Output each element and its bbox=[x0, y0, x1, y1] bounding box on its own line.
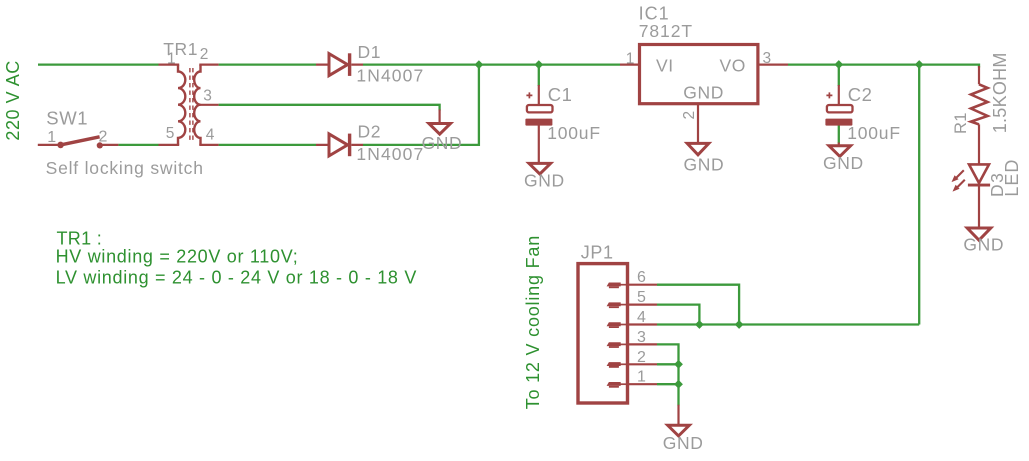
svg-text:GND: GND bbox=[684, 155, 725, 175]
svg-text:LV winding = 24 - 0 - 24 V or: LV winding = 24 - 0 - 24 V or 18 - 0 - 1… bbox=[56, 268, 417, 288]
svg-text:2: 2 bbox=[200, 46, 209, 63]
svg-text:VI: VI bbox=[656, 56, 674, 76]
svg-text:Self locking switch: Self locking switch bbox=[46, 158, 204, 178]
svg-text:1N4007: 1N4007 bbox=[356, 144, 424, 164]
svg-text:3: 3 bbox=[203, 88, 212, 105]
svg-text:GND: GND bbox=[683, 82, 724, 102]
svg-text:SW1: SW1 bbox=[46, 108, 88, 129]
svg-text:2: 2 bbox=[681, 110, 698, 119]
svg-text:7812T: 7812T bbox=[639, 21, 693, 41]
svg-text:D1: D1 bbox=[358, 42, 382, 62]
svg-text:2: 2 bbox=[99, 129, 109, 146]
svg-text:1: 1 bbox=[47, 129, 57, 146]
svg-text:C2: C2 bbox=[848, 84, 873, 105]
svg-text:TR1 :: TR1 : bbox=[57, 228, 103, 248]
svg-text:HV winding = 220V or 110V;: HV winding = 220V or 110V; bbox=[56, 246, 299, 266]
svg-text:1: 1 bbox=[637, 369, 647, 386]
svg-text:4: 4 bbox=[637, 309, 647, 326]
svg-text:5: 5 bbox=[637, 289, 647, 306]
svg-text:VO: VO bbox=[720, 56, 747, 76]
svg-text:R1: R1 bbox=[952, 112, 970, 134]
svg-text:GND: GND bbox=[663, 433, 704, 453]
svg-text:LED: LED bbox=[1002, 159, 1022, 197]
svg-text:GND: GND bbox=[823, 153, 864, 173]
svg-text:6: 6 bbox=[637, 269, 647, 286]
svg-text:1: 1 bbox=[626, 51, 635, 68]
svg-text:JP1: JP1 bbox=[581, 242, 614, 262]
svg-text:GND: GND bbox=[524, 171, 565, 191]
svg-text:To 12 V cooling Fan: To 12 V cooling Fan bbox=[523, 235, 543, 409]
svg-text:D2: D2 bbox=[358, 122, 382, 142]
svg-text:220 V AC: 220 V AC bbox=[3, 60, 23, 140]
svg-text:3: 3 bbox=[637, 329, 647, 346]
svg-text:3: 3 bbox=[763, 50, 772, 67]
svg-text:100uF: 100uF bbox=[847, 123, 901, 143]
svg-text:1.5KOHM: 1.5KOHM bbox=[990, 52, 1010, 133]
svg-text:C1: C1 bbox=[548, 84, 573, 105]
svg-text:4: 4 bbox=[206, 126, 215, 143]
svg-text:2: 2 bbox=[637, 349, 647, 366]
svg-text:5: 5 bbox=[166, 125, 175, 142]
svg-text:1: 1 bbox=[167, 51, 176, 68]
svg-text:GND: GND bbox=[963, 234, 1004, 254]
svg-text:1N4007: 1N4007 bbox=[356, 66, 424, 86]
svg-text:GND: GND bbox=[422, 133, 463, 153]
svg-text:100uF: 100uF bbox=[547, 123, 601, 143]
